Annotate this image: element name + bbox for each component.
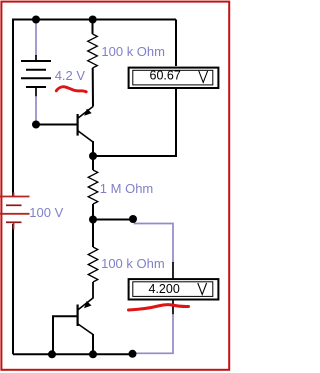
wire node row to meter M2 tap (93, 219, 133, 221)
wire top rail (13, 19, 176, 21)
resistor R3 lead bottom to Q2 emitter (92, 282, 94, 299)
resistor R3 100k lead top (92, 220, 94, 248)
label 100 k Ohm (top) (101, 44, 165, 59)
node dot Q1 collector / R2 / meter M1 (89, 152, 97, 160)
wire meter M2 bottom lead (purple) (134, 300, 173, 353)
battery V1 4.2V plates (21, 61, 51, 87)
wire left vertical (bottom section) (12, 224, 14, 354)
node dot bottom rail / Q2 collector (89, 350, 97, 358)
wire left vertical (top section) (12, 19, 14, 197)
label 100 V (29, 205, 63, 220)
resistor R2 lead bottom (92, 204, 94, 220)
node dot battery V1 / Q1 base (32, 121, 40, 129)
meter M1 voltmeter 60.67 V (129, 68, 219, 88)
battery V2 100V plates (selected, red) (0, 193, 30, 230)
label 1 M Ohm (100, 181, 153, 196)
wire bottom rail (13, 353, 133, 355)
resistor R3 100k zigzag (88, 247, 98, 282)
svg-text:100 k Ohm: 100 k Ohm (101, 256, 165, 271)
svg-text:100 V: 100 V (29, 205, 63, 220)
label 4.2 V (55, 68, 86, 83)
resistor R1 100k zigzag (88, 34, 98, 68)
annotation scribble near 4.2 V (56, 87, 86, 92)
svg-text:4.200: 4.200 (149, 282, 180, 296)
transistor Q1 (PNP) (78, 107, 94, 143)
wire meter M2 top lead (purple) (135, 220, 174, 280)
node dot top rail / resistor R1 (89, 16, 97, 24)
wire meter M1 bottom lead (93, 89, 176, 156)
annotation scribble under meter M2 (129, 305, 189, 310)
wire Q2 base lead (53, 316, 78, 354)
wire meter M1 top lead (175, 20, 177, 67)
label 100 k Ohm (bottom) (101, 256, 165, 271)
svg-text:1 M Ohm: 1 M Ohm (100, 181, 153, 196)
resistor R1 100k lead top (92, 20, 94, 35)
node dot meter M2 tap (129, 215, 137, 223)
resistor R1 lead bottom to Q1 emitter (92, 68, 94, 107)
resistor R2 1M zigzag (88, 170, 98, 204)
wire battery V1 bottom lead (purple) (35, 87, 37, 124)
meter M2 voltmeter 4.200 V (129, 279, 219, 299)
wire Q1 collector lead (92, 141, 94, 156)
wire Q2 collector lead (92, 334, 94, 354)
node dot R2 / R3 tap (89, 216, 97, 224)
svg-text:100 k Ohm: 100 k Ohm (101, 44, 165, 59)
svg-text:4.2 V: 4.2 V (55, 68, 86, 83)
transistor Q2 (PNP) (78, 298, 93, 335)
svg-text:60.67: 60.67 (150, 69, 181, 83)
wire battery V1 top lead (purple) (35, 20, 37, 62)
resistor R2 1M lead top (92, 156, 94, 170)
node dot bottom rail / Q2 base (48, 350, 56, 358)
wire Q1 base lead (36, 124, 77, 126)
node dot top rail / battery V1 (32, 16, 40, 24)
node dot bottom rail / meter M2 return (129, 350, 137, 358)
